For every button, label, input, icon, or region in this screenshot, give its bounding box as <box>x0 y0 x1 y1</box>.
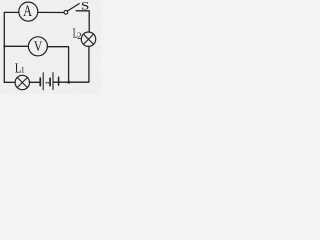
svg-text:V: V <box>34 38 43 55</box>
svg-text:1: 1 <box>21 66 25 75</box>
svg-text:A: A <box>23 4 32 21</box>
svg-text:S: S <box>81 0 89 12</box>
svg-text:2: 2 <box>77 31 82 41</box>
